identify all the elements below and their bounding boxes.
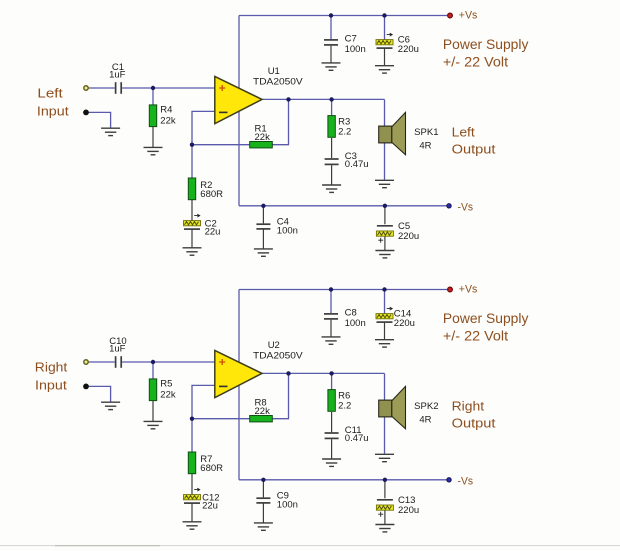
ground xyxy=(322,337,341,344)
svg-text:220u: 220u xyxy=(398,231,419,242)
svg-text:220u: 220u xyxy=(394,318,415,329)
wire -Vs rail (left) xyxy=(239,205,447,207)
ground xyxy=(101,128,120,135)
capacitor C5 (electrolytic) xyxy=(376,221,419,243)
svg-text:100n: 100n xyxy=(345,318,366,329)
wire R3 lead from output xyxy=(331,99,333,115)
wire input ground stub xyxy=(86,112,111,127)
svg-text:+Vs: +Vs xyxy=(459,283,478,295)
svg-text:22k: 22k xyxy=(160,115,176,126)
junction node -rail/C13 xyxy=(383,478,387,482)
wire input to C1 xyxy=(89,87,115,89)
svg-text:100n: 100n xyxy=(345,44,366,55)
svg-text:Right: Right xyxy=(452,399,485,414)
capacitor C7 xyxy=(324,34,366,55)
svg-text:Left: Left xyxy=(452,125,476,140)
wire feedback node to R1 xyxy=(192,144,250,146)
svg-text:22k: 22k xyxy=(255,132,271,143)
wire R8 to output xyxy=(272,373,289,418)
wire - input of U1 to feedback node xyxy=(192,111,215,144)
junction node -rail/C5 xyxy=(383,204,387,208)
wire R6 lead from output xyxy=(331,373,333,389)
capacitor C1 xyxy=(109,62,126,94)
capacitor C4 xyxy=(256,217,298,237)
wire C6 lead from +Vs rail xyxy=(384,16,386,40)
wire +Vs rail (right) xyxy=(239,289,447,291)
svg-text:SPK1: SPK1 xyxy=(414,127,438,138)
svg-text:680R: 680R xyxy=(200,463,223,474)
wire - input of U2 to feedback node xyxy=(192,385,215,418)
capacitor C10 xyxy=(109,336,127,368)
capacitor C3 xyxy=(325,151,369,170)
ground xyxy=(375,454,394,461)
speaker SPK1 4R xyxy=(379,112,439,154)
svg-text:+/- 22 Volt: +/- 22 Volt xyxy=(443,54,508,69)
svg-text:-Vs: -Vs xyxy=(458,475,474,487)
junction node feedback left xyxy=(190,143,194,147)
svg-text:SPK2: SPK2 xyxy=(414,401,438,412)
label Power Supply +/- 22 Volt xyxy=(443,37,529,69)
faint scan line at bottom xyxy=(0,545,620,547)
junction node output/feedback xyxy=(286,97,290,101)
node +Vs terminal xyxy=(448,13,453,18)
wire C7 lead from +Vs rail xyxy=(330,16,332,40)
junction node +rail/C6 xyxy=(382,13,386,17)
svg-text:R4: R4 xyxy=(160,105,172,116)
wire (component leads, ground side) xyxy=(153,46,385,251)
wire supply V+/V- vertical to U1 xyxy=(238,16,240,206)
svg-text:2.2: 2.2 xyxy=(338,400,351,411)
ground xyxy=(375,340,394,347)
capacitor C14 (electrolytic) xyxy=(376,307,415,329)
wire input to C10 xyxy=(89,361,115,363)
capacitor C11 xyxy=(325,425,369,444)
svg-text:22k: 22k xyxy=(255,406,271,417)
junction node input/R-bias xyxy=(151,86,155,90)
resistor R1 xyxy=(250,124,273,148)
wire +Vs rail (left) xyxy=(239,15,447,17)
wire R2 lead from feedback node xyxy=(191,145,193,178)
node input ground terminal xyxy=(83,110,89,116)
svg-text:Output: Output xyxy=(452,415,496,430)
junction node +rail/C8 xyxy=(329,287,333,291)
ground xyxy=(322,185,341,192)
ground xyxy=(375,525,394,532)
wire SPK2 top lead xyxy=(384,373,386,400)
junction node +rail/C7 xyxy=(329,13,333,17)
ground xyxy=(183,248,202,255)
ground xyxy=(375,180,394,187)
node Left input terminal xyxy=(84,86,88,90)
junction node output/zobel xyxy=(329,371,333,375)
svg-text:+/- 22 Volt: +/- 22 Volt xyxy=(443,328,508,343)
op-amp U2 TDA2050V xyxy=(215,340,304,398)
resistor R2 xyxy=(188,178,223,200)
svg-text:R5: R5 xyxy=(160,379,172,390)
wire -Vs rail (right) xyxy=(239,479,447,481)
svg-text:Power Supply: Power Supply xyxy=(443,311,529,326)
junction node -rail/C4 xyxy=(261,204,265,208)
svg-text:220u: 220u xyxy=(398,505,419,516)
label Right Output xyxy=(452,399,496,431)
svg-text:2.2: 2.2 xyxy=(338,126,351,137)
svg-text:TDA2050V: TDA2050V xyxy=(253,76,303,87)
svg-text:+Vs: +Vs xyxy=(459,9,478,21)
node +Vs terminal xyxy=(448,287,453,292)
wire R5 lead from input node xyxy=(152,362,154,379)
svg-text:100n: 100n xyxy=(277,500,298,511)
speaker SPK2 4R xyxy=(379,386,439,428)
wire R1 to output xyxy=(272,99,289,144)
svg-text:Right: Right xyxy=(35,360,68,375)
label Right Input xyxy=(35,360,68,393)
wire C14 lead from +Vs rail xyxy=(384,290,386,314)
node -Vs terminal xyxy=(447,204,451,208)
wire SPK2 bottom lead xyxy=(384,417,386,454)
node -Vs terminal xyxy=(447,478,451,482)
svg-text:22u: 22u xyxy=(202,501,218,512)
label Left Output xyxy=(452,125,496,157)
wire SPK1 top lead xyxy=(384,99,386,126)
wire (component leads, ground side) xyxy=(153,320,385,525)
junction node input/R-bias xyxy=(151,360,155,364)
ground xyxy=(144,421,163,428)
junction node output/feedback xyxy=(286,371,290,375)
wire output net xyxy=(262,98,385,100)
svg-text:680R: 680R xyxy=(200,189,223,200)
resistor R7 xyxy=(188,452,223,474)
svg-text:Input: Input xyxy=(35,377,67,392)
capacitor C2 (electrolytic) xyxy=(184,214,221,238)
wire input ground stub xyxy=(86,386,111,401)
resistor R5 xyxy=(149,379,176,401)
svg-text:Power Supply: Power Supply xyxy=(443,37,529,52)
wire SPK1 bottom lead xyxy=(384,143,386,180)
capacitor C9 xyxy=(256,491,298,511)
ground xyxy=(183,522,202,529)
capacitor C8 xyxy=(324,308,366,329)
capacitor C6 (electrolytic) xyxy=(376,33,419,55)
resistor R4 xyxy=(149,105,176,127)
ground xyxy=(375,66,394,73)
junction node +rail/C14 xyxy=(382,287,386,291)
node input ground terminal xyxy=(83,384,89,390)
capacitor C12 (electrolytic) xyxy=(184,488,220,512)
resistor R6 xyxy=(328,390,351,412)
svg-text:4R: 4R xyxy=(419,141,431,152)
junction node feedback left xyxy=(190,417,194,421)
wire supply V+/V- vertical to U2 xyxy=(238,290,240,480)
resistor R3 xyxy=(328,116,351,138)
svg-text:0.47u: 0.47u xyxy=(345,433,369,444)
wire R4 lead from input node xyxy=(152,88,154,105)
svg-text:-Vs: -Vs xyxy=(458,201,474,213)
capacitor C13 (electrolytic) xyxy=(376,495,419,517)
ground xyxy=(322,63,341,70)
wire feedback node to R8 xyxy=(192,418,250,420)
svg-text:Output: Output xyxy=(452,141,496,156)
wire output net xyxy=(262,372,385,374)
ground xyxy=(144,147,163,154)
ground xyxy=(254,249,273,256)
wire C1 to + input of U1 xyxy=(122,87,215,89)
svg-text:22u: 22u xyxy=(205,227,221,238)
wire C10 to + input of U2 xyxy=(122,361,215,363)
svg-text:Left: Left xyxy=(37,86,63,101)
ground xyxy=(322,459,341,466)
wire R7 lead from feedback node xyxy=(191,419,193,452)
op-amp U1 TDA2050V xyxy=(215,66,304,124)
svg-text:100n: 100n xyxy=(277,226,298,237)
resistor R8 xyxy=(250,398,273,422)
svg-text:Input: Input xyxy=(37,103,69,118)
ground xyxy=(375,251,394,258)
svg-text:4R: 4R xyxy=(419,415,431,426)
svg-text:0.47u: 0.47u xyxy=(345,159,369,170)
svg-text:22k: 22k xyxy=(160,389,176,400)
ground xyxy=(254,523,273,530)
node Right input terminal xyxy=(84,360,88,364)
label Left Input xyxy=(37,86,69,119)
svg-text:1uF: 1uF xyxy=(109,70,126,81)
wire C8 lead from +Vs rail xyxy=(330,290,332,314)
ground xyxy=(101,402,120,409)
svg-text:220u: 220u xyxy=(398,44,419,55)
junction node output/zobel xyxy=(329,97,333,101)
svg-text:TDA2050V: TDA2050V xyxy=(253,350,303,361)
label Power Supply +/- 22 Volt xyxy=(443,311,529,343)
junction node -rail/C9 xyxy=(261,478,265,482)
svg-text:1uF: 1uF xyxy=(109,344,126,355)
